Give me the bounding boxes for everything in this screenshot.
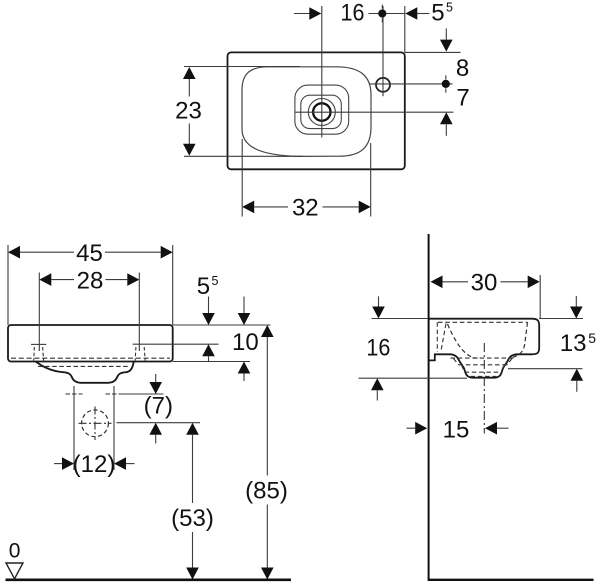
svg-text:5: 5 (212, 274, 219, 288)
side view: basin profile outline (430, 319, 540, 378)
dim 16 side: top extension line (372, 318, 428, 320)
right bracket: right dashed leg (144, 347, 145, 361)
dim 5.5 front: down arrowhead (202, 313, 215, 325)
dim 16 side: bottom extension line (359, 377, 468, 379)
svg-text:23: 23 (175, 97, 202, 124)
datum zero triangle (6, 563, 23, 579)
dim (53): down arrowhead (186, 568, 199, 580)
svg-text:5: 5 (446, 0, 453, 14)
top view: drain hole thick circle (313, 103, 330, 120)
dim 32: left shaft (254, 206, 288, 208)
dim 7: up arrowhead (440, 112, 453, 124)
dim 13.5: upper arrow shaft (575, 296, 577, 307)
dim 10: lower arrow shaft (243, 374, 245, 382)
dim (7): upper line (120, 393, 164, 395)
dim 23: top extension line (184, 66, 300, 68)
dim 30: left arrowhead (431, 276, 443, 289)
left fixing hole cross vertical (73, 386, 75, 402)
svg-text:5: 5 (431, 0, 444, 27)
svg-text:13: 13 (560, 330, 587, 357)
dim 15: left shaft (407, 427, 416, 429)
dim 23: lower shaft (188, 124, 190, 145)
dim 32: right shaft (323, 206, 359, 208)
dim 13.5: bottom extension line (508, 368, 583, 370)
svg-text:(12): (12) (73, 451, 116, 478)
left bracket: right dashed leg (43, 347, 44, 361)
dim 5.5 front: upper arrow shaft (208, 297, 210, 314)
svg-text:0: 0 (9, 540, 21, 563)
svg-text:7: 7 (456, 84, 469, 111)
trap centerline vertical (94, 407, 96, 441)
side hidden: trap left slope (454, 359, 459, 365)
dim 45: left extension line (7, 245, 9, 325)
top view: basin outer rim rectangle (228, 52, 405, 169)
svg-text:16: 16 (341, 0, 365, 27)
right bracket arm + tap deck line extension (133, 343, 219, 345)
svg-text:10: 10 (232, 329, 259, 356)
dim (12): left shaft (54, 463, 62, 465)
svg-text:28: 28 (77, 268, 104, 295)
dim (12): right-pointing arrowhead (62, 457, 74, 470)
top view: drain outer rounded square (295, 85, 349, 134)
dim 5.5 top: left-pointing arrowhead (405, 7, 417, 20)
dim 7: lower arrow shaft (445, 124, 447, 136)
dim 16 side: upper arrow shaft (378, 296, 380, 306)
side hidden: bowl bottom dashed (471, 375, 497, 377)
dim 28: left extension line / bracket centerline (38, 273, 40, 352)
top view: inner basin opening outline (242, 67, 371, 157)
dim (12): right extension line (113, 402, 115, 470)
dim 5.5 top: shaft between dot and arrow (369, 13, 406, 15)
dim chain dot at faucet line (top) (378, 9, 386, 17)
dim 16 side: lower arrow shaft (376, 390, 378, 400)
dim 13.5: lower arrow shaft (576, 381, 578, 392)
dim (12): left extension line (73, 402, 75, 470)
floor line left (6, 578, 292, 581)
svg-text:32: 32 (292, 194, 319, 221)
dim 15: right shaft (497, 427, 509, 429)
right fixing hole cross horizontal (106, 393, 123, 395)
dim 16 top: left shaft (294, 13, 320, 15)
dim 45: right shaft (105, 251, 161, 253)
side hidden: trap step line (459, 364, 508, 366)
svg-text:5: 5 (197, 273, 210, 300)
svg-text:30: 30 (471, 269, 498, 296)
front view: drain trap dashed circle (82, 410, 109, 437)
dim (53): lower shaft (192, 532, 194, 568)
dim 28: right shaft (106, 279, 128, 281)
dim (12): right shaft (126, 463, 135, 465)
dim 23: upper shaft (188, 79, 190, 97)
svg-text:5: 5 (588, 330, 596, 346)
dim chain dot right upper stub (445, 75, 447, 79)
svg-text:8: 8 (456, 55, 469, 82)
front view: basin body rectangle (8, 325, 173, 362)
dim 32: left extension line (241, 139, 243, 217)
dim (53): upper shaft (192, 435, 194, 503)
dim 16 side: down arrowhead (372, 307, 385, 319)
right bracket: left dashed leg (134, 347, 137, 361)
top view: right edge extension line up (404, 6, 406, 52)
dim 10: up arrowhead (238, 362, 251, 374)
svg-text:(85): (85) (245, 477, 288, 504)
top view: drain outer circle (308, 99, 335, 126)
dim (85): up arrowhead (261, 325, 274, 337)
top view: faucet hole circle (376, 78, 390, 92)
side hidden: rim top dashed (438, 321, 528, 323)
dim 28: right arrowhead (127, 273, 139, 286)
dim (7): upper arrow shaft (155, 374, 157, 382)
side view: drain centerline dash-dot (483, 343, 485, 434)
side hidden: interior slope dashed (448, 324, 478, 358)
floor line right (428, 579, 594, 581)
dim (7): lower line (117, 422, 201, 424)
side hidden: inner step right (502, 365, 505, 372)
right fixing hole cross vertical (113, 386, 115, 402)
dim (7): down arrowhead (149, 382, 162, 394)
svg-text:16: 16 (366, 335, 390, 362)
dim 23: up arrowhead (183, 67, 196, 79)
dim (53): up arrowhead (186, 423, 199, 435)
side view: wall line (428, 234, 430, 579)
dim chain dot top stub (381, 5, 383, 9)
dim 30: left shaft (443, 281, 469, 283)
front view: top edge extension right (173, 324, 271, 326)
svg-text:(7): (7) (144, 393, 173, 420)
svg-text:15: 15 (443, 416, 470, 443)
dim 16 top: right-pointing arrowhead (309, 7, 321, 20)
front view: bowl hidden rim dashed line (38, 365, 130, 367)
dim 13.5: up arrowhead (571, 369, 584, 381)
dim (7): lower arrow shaft (155, 435, 157, 444)
dim 32: right arrowhead (359, 201, 371, 214)
dim 8: down arrowhead (440, 40, 453, 52)
side hidden: back wall dashed (436, 322, 438, 352)
top view: faucet vertical centerline (382, 6, 384, 96)
front view: bowl underside outline (36, 361, 134, 382)
left bracket: cross arm (31, 343, 46, 345)
top view: top edge extension line right (405, 51, 461, 53)
dim chain dot right lower stub (445, 88, 447, 92)
side hidden: bowl top dashed (451, 357, 515, 359)
svg-text:(53): (53) (171, 505, 214, 532)
svg-text:45: 45 (76, 240, 103, 267)
dim (12): left-pointing arrowhead (114, 457, 126, 470)
side hidden: inner step line (465, 371, 502, 373)
dim (85): upper shaft (266, 337, 268, 476)
dim 23: bottom extension line (184, 155, 303, 157)
dim (85): down arrowhead (261, 568, 274, 580)
dim 45: right extension line (172, 245, 174, 325)
dim 13.5: top extension line (539, 318, 583, 320)
dim 23: down arrowhead (183, 144, 196, 156)
dim 28: left arrowhead (39, 273, 51, 286)
dim 45: left shaft (20, 251, 74, 253)
top view: faucet horizontal centerline (369, 83, 452, 85)
dim 28: right extension line / bracket centerline (138, 273, 140, 352)
dim 45: left arrowhead (8, 246, 20, 259)
left bracket: left dashed leg (33, 347, 36, 361)
dim 10: upper arrow shaft (243, 297, 245, 314)
dim 15: right-pointing arrowhead (415, 422, 427, 435)
dim chain dot at faucet line (right) (442, 80, 450, 88)
dim (85): lower shaft (266, 505, 268, 568)
top view: drain horizontal centerline (296, 111, 454, 113)
dim 32: right extension line (370, 143, 372, 217)
dim 8: upper arrow shaft (445, 28, 447, 39)
dim 30: right extension line (539, 275, 541, 318)
side hidden: front interior contour dashed (509, 322, 528, 358)
top view: drain inner rounded square (301, 95, 342, 128)
dim 15: left-pointing arrowhead (485, 422, 497, 435)
dim 13.5: down arrowhead (570, 307, 583, 319)
dim 16 side: up arrowhead (371, 378, 384, 390)
dim 32: left arrowhead (242, 201, 254, 214)
side hidden: inner step left (462, 365, 465, 372)
side hidden: back wall slope dashed (441, 324, 446, 352)
trap centerline horizontal (79, 422, 112, 424)
front view: hidden bottom dashed line (11, 357, 170, 359)
dim 30: right arrowhead (528, 276, 540, 289)
dim 5.5 top: right shaft (417, 13, 429, 15)
front view: bottom edge extension right (173, 361, 250, 363)
top view: drain vertical centerline (321, 6, 323, 138)
side hidden: trap right slope (507, 359, 512, 365)
dim 5.5 front: up arrowhead (202, 344, 215, 356)
dim (7): up arrowhead (149, 423, 162, 435)
left fixing hole cross horizontal (66, 393, 83, 395)
dim 5.5 front: lower arrow shaft (208, 356, 210, 361)
dim chain dot bottom stub (381, 18, 383, 22)
dim 30: right shaft (501, 281, 528, 283)
dim 28: left shaft (51, 279, 74, 281)
dim 10: down arrowhead (238, 313, 251, 325)
dim 45: right arrowhead (161, 246, 173, 259)
